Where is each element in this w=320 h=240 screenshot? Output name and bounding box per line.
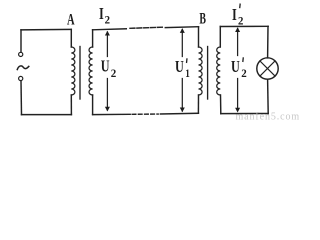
- arrowhead U2' bottom: [235, 108, 240, 113]
- svg-text:2: 2: [241, 66, 247, 80]
- transformer T2 secondary winding: [217, 47, 221, 95]
- wire: primary T1 top lead: [70, 29, 72, 47]
- voltage arrow U2 shaft lower: [106, 79, 108, 111]
- wire: right loop bottom: [221, 113, 268, 115]
- wire: right loop top: [220, 25, 268, 27]
- voltage arrow U2' shaft lower: [237, 79, 239, 111]
- prime tick of U1': [186, 58, 189, 63]
- transformer T2 core: [207, 47, 209, 100]
- svg-text:I: I: [232, 5, 237, 24]
- wire: AC source bottom lead: [20, 81, 23, 115]
- arrowhead U1' bottom: [180, 108, 185, 113]
- voltage label U1': [175, 57, 190, 80]
- transformer T1 core: [79, 47, 81, 100]
- svg-text:U: U: [231, 57, 240, 76]
- arrowhead U2 top: [105, 31, 110, 36]
- lamp X stroke 1: [260, 61, 275, 76]
- voltage arrow U2' shaft upper: [237, 29, 239, 56]
- transformer T1 primary winding: [71, 47, 75, 95]
- svg-text:B: B: [199, 10, 206, 27]
- svg-text:1: 1: [185, 66, 190, 80]
- voltage arrow U1' shaft lower: [181, 79, 183, 112]
- wire: left loop top: [21, 28, 71, 31]
- wire: middle bottom dashed: [132, 113, 158, 115]
- voltage arrow U1' shaft upper: [181, 30, 183, 57]
- svg-text:2: 2: [238, 14, 243, 28]
- transformer T1 secondary winding: [89, 47, 93, 95]
- wire: lamp bottom lead: [267, 79, 270, 113]
- svg-text:2: 2: [105, 13, 110, 27]
- voltage label U2': [231, 57, 247, 80]
- wire: lamp top lead: [267, 26, 269, 58]
- transformer T2 primary winding: [199, 47, 203, 95]
- arrowhead U2' top: [235, 27, 240, 32]
- svg-text:2: 2: [111, 66, 117, 80]
- terminal upper circle: [19, 52, 23, 56]
- wire: secondary T1 top lead: [92, 30, 94, 47]
- svg-text:U: U: [101, 57, 110, 76]
- wire: AC source top lead: [20, 30, 22, 52]
- svg-text:U: U: [175, 57, 184, 76]
- prime tick of I2': [239, 4, 242, 9]
- voltage label U2: [101, 57, 117, 80]
- prime tick of U2': [242, 57, 245, 62]
- voltage arrow U2 shaft upper: [106, 32, 108, 57]
- wire: secondary T1 bottom lead: [92, 95, 94, 115]
- svg-text:I: I: [99, 4, 104, 23]
- wire: left loop bottom: [22, 114, 72, 116]
- wire: secondary T2 bottom lead: [220, 95, 222, 114]
- arrowhead U1' top: [180, 28, 185, 33]
- arrowhead U2 bottom: [105, 107, 110, 112]
- wire: primary T2 bottom lead: [197, 95, 199, 113]
- wire: middle top solid right: [165, 26, 198, 29]
- svg-text:A: A: [67, 12, 75, 29]
- svg-text:manfen5.com: manfen5.com: [236, 111, 301, 120]
- wire: middle top dashed (transmission line): [130, 27, 162, 28]
- wire: middle bottom solid right: [160, 112, 198, 115]
- wire: secondary T2 top lead: [219, 27, 221, 48]
- wire: primary T1 bottom lead: [70, 95, 72, 115]
- lamp circle: [257, 58, 278, 79]
- current label I2: [99, 4, 110, 27]
- wire: middle bottom solid left: [93, 113, 131, 115]
- lamp X stroke 2: [260, 61, 275, 76]
- wire: primary T2 top lead: [198, 27, 200, 47]
- current label I2': [232, 5, 243, 28]
- wire: middle top solid left: [93, 29, 127, 30]
- AC tilde symbol: [17, 66, 29, 70]
- terminal lower circle: [19, 76, 23, 80]
